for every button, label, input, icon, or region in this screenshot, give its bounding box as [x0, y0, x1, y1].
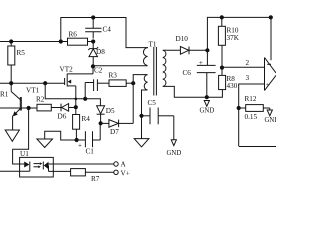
node R6/C4/D8 — [91, 39, 95, 43]
svg-text:C2: C2 — [94, 67, 103, 75]
diode D7 — [101, 83, 134, 136]
junction VT2 source crossing — [75, 98, 78, 101]
resistor R2 — [36, 96, 51, 111]
resistor R3 — [109, 72, 134, 87]
resistor R4 — [73, 107, 91, 140]
node R10/R8/pin2 — [220, 66, 224, 70]
svg-text:GND: GND — [265, 117, 277, 124]
node C4 top — [91, 15, 95, 19]
node rail op-amp — [269, 15, 273, 19]
svg-text:U1: U1 — [20, 150, 29, 158]
node bus1/R5 — [9, 39, 13, 43]
node C5 tap — [139, 114, 143, 118]
wire secondary return — [163, 86, 223, 97]
node D8 bottom / primary-A bottom — [91, 64, 95, 68]
transformer T1 — [143, 41, 165, 96]
wire primary B bottom lead — [142, 90, 148, 139]
wire bus1 top-left horizontal — [0, 41, 68, 43]
wire primary B top lead — [133, 75, 147, 84]
wire op-amp pin 3 — [239, 84, 265, 146]
svg-text:R1: R1 — [0, 91, 9, 99]
svg-text:C1: C1 — [86, 148, 95, 156]
svg-text:D7: D7 — [110, 128, 119, 136]
capacitor C4 — [85, 18, 111, 39]
ground below primary B — [134, 139, 149, 147]
node rail R10 — [220, 15, 224, 19]
transistor VT1 — [0, 83, 40, 130]
svg-text:0.15: 0.15 — [245, 113, 258, 121]
ground GND for C6 — [200, 101, 215, 115]
wire secondary top lead — [163, 49, 181, 51]
svg-text:V+: V+ — [121, 170, 130, 178]
node R4/C1 — [75, 138, 79, 142]
op-amp U2 — [265, 17, 277, 90]
svg-text:R12: R12 — [245, 95, 257, 103]
resistor R7 — [71, 169, 114, 183]
svg-text:R4: R4 — [82, 115, 91, 123]
wire rail from D10 node to top — [207, 17, 270, 50]
svg-text:A: A — [121, 161, 127, 169]
svg-text:T1: T1 — [149, 41, 157, 49]
svg-text:R3: R3 — [109, 72, 118, 80]
diode D5 — [97, 106, 115, 124]
svg-text:+: + — [266, 80, 270, 89]
wire jog to ground 2 — [45, 131, 77, 140]
svg-text:C4: C4 — [103, 26, 112, 34]
node D6/R4/VT2 source — [74, 105, 78, 109]
svg-text:C5: C5 — [148, 99, 157, 107]
svg-text:R2: R2 — [36, 96, 45, 104]
ground 2 — [37, 139, 53, 148]
svg-text:3: 3 — [246, 74, 250, 82]
svg-text:D5: D5 — [106, 107, 115, 115]
svg-text:C6: C6 — [183, 69, 192, 77]
resistor R12 — [239, 95, 270, 121]
svg-text:37K: 37K — [227, 34, 240, 42]
wire bus2 drop to D5 — [45, 83, 100, 106]
svg-text:430: 430 — [227, 82, 238, 90]
resistor R8 — [219, 75, 238, 90]
resistor R6 — [68, 31, 94, 46]
capacitor C6 — [183, 50, 216, 97]
capacitor C2 — [85, 67, 109, 99]
node bus1 riser — [59, 39, 63, 43]
svg-text:VT2: VT2 — [60, 66, 74, 74]
svg-text:+: + — [78, 141, 82, 150]
ground GND for C5 — [167, 116, 182, 157]
transistor VT2 — [60, 66, 94, 108]
resistor R10 — [218, 17, 239, 75]
diode D6 — [51, 104, 76, 121]
svg-text:R6: R6 — [69, 31, 78, 39]
svg-text:GND: GND — [200, 108, 215, 115]
svg-text:D6: D6 — [58, 113, 67, 121]
svg-text:GND: GND — [167, 150, 182, 157]
diode D10 — [176, 35, 208, 54]
optocoupler U1 — [0, 150, 114, 177]
node C6 bottom / return — [205, 95, 209, 99]
wire bottom to right edge — [239, 146, 276, 148]
wire primary A bottom lead — [93, 65, 148, 67]
resistor R5 — [8, 42, 25, 84]
zener diode D8 — [88, 42, 105, 67]
node C2 tap — [83, 97, 87, 101]
wire base node to U1 — [13, 108, 29, 164]
node D10 cathode — [205, 48, 209, 52]
node bus2 drop — [43, 81, 47, 85]
wire op-amp pin 2 — [222, 66, 265, 68]
node D5/D7/C1 — [99, 121, 103, 125]
capacitor C1 — [77, 123, 101, 155]
ground below VT1 — [5, 130, 19, 141]
svg-text:D10: D10 — [176, 35, 189, 43]
node bus2/R5 — [9, 81, 13, 85]
svg-text:VT1: VT1 — [26, 87, 40, 95]
terminal A — [114, 162, 118, 166]
wire bus2 — [0, 82, 65, 84]
svg-text:D8: D8 — [96, 48, 105, 56]
svg-text:R5: R5 — [17, 49, 26, 57]
svg-text:+: + — [199, 58, 203, 67]
ground GND for R12 — [265, 108, 280, 124]
node R3 right — [131, 81, 135, 85]
capacitor C5 — [142, 99, 174, 124]
svg-text:2: 2 — [246, 59, 250, 67]
terminal V+ — [114, 170, 118, 174]
node VT1 base drop — [27, 106, 31, 110]
svg-text:R7: R7 — [91, 175, 100, 183]
node R12 left — [237, 106, 241, 110]
wire riser to top rail — [61, 18, 148, 48]
